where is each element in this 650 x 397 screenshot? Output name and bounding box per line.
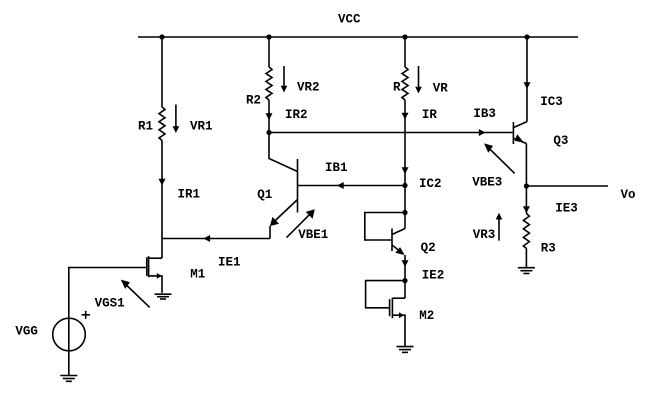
wire R to Q2 collector — [404, 100, 406, 229]
wire Q3 emitter node to R3 — [525, 186, 527, 214]
arrow IR current on wire — [402, 113, 409, 120]
node junction A at R2 bottom — [266, 130, 271, 135]
arrow VGS1 voltage annotation — [121, 280, 150, 308]
wire Q2 emitter to M2 — [404, 255, 406, 298]
svg-text:VGG: VGG — [15, 325, 38, 339]
svg-text:R1: R1 — [138, 120, 153, 134]
label polarity plus — [82, 311, 91, 319]
transistor M1 — [147, 256, 162, 293]
arrow IR1 current on wire — [159, 179, 166, 186]
arrow VBE3 voltage annotation — [484, 143, 515, 173]
svg-text:VR1: VR1 — [190, 120, 213, 134]
svg-text:IR1: IR1 — [178, 188, 201, 202]
arrow VR3 voltage annotation — [496, 213, 503, 241]
transistor M2 — [366, 281, 405, 347]
wire R2 to node A — [268, 100, 270, 133]
arrow IB1 current on wire — [337, 182, 344, 189]
svg-text:VCC: VCC — [338, 13, 361, 27]
node junction VCC-R2 — [266, 34, 271, 39]
arrow VR2 voltage annotation — [281, 66, 288, 93]
node junction IB1 tap — [402, 183, 407, 188]
svg-text:IB1: IB1 — [325, 161, 348, 175]
svg-text:M1: M1 — [190, 268, 205, 282]
ground below M2 — [397, 347, 414, 353]
transistor Q1 — [269, 133, 298, 239]
resistor R2 — [266, 67, 272, 100]
wire node A to Q3 base — [269, 132, 513, 134]
node junction Q2 collector-base tie — [402, 210, 407, 215]
arrow IC3 current on wire — [524, 82, 531, 89]
arrow VR1 voltage annotation — [173, 105, 180, 134]
ground below M1 — [155, 294, 172, 299]
resistor R1 — [159, 107, 165, 141]
node junction VCC-R — [402, 34, 407, 39]
arrow IC2 current on wire — [402, 167, 409, 174]
svg-text:Q1: Q1 — [257, 188, 272, 202]
wire M1 gate to VGG — [69, 268, 147, 376]
arrow IR2 current on wire — [266, 113, 273, 120]
arrow VR voltage annotation — [415, 66, 422, 94]
arrow IE1 current on wire — [203, 235, 210, 242]
voltage source VGG — [53, 318, 86, 351]
svg-text:IE2: IE2 — [422, 269, 445, 283]
arrow VBE1 voltage annotation — [287, 209, 315, 237]
svg-text:VR3: VR3 — [473, 228, 496, 242]
transistor Q3 — [513, 37, 527, 186]
wire IB1 from node to Q1 base — [298, 185, 406, 187]
wire VCC to R2 — [268, 37, 270, 67]
ground below VGG — [60, 376, 77, 382]
wire R3 to ground — [525, 249, 527, 268]
svg-text:IR2: IR2 — [285, 108, 308, 122]
node junction VCC-R1 — [159, 34, 164, 39]
node junction VCC-Q3 collector — [524, 34, 529, 39]
wire IE1 from M1 drain to Q1 emitter — [162, 238, 270, 240]
svg-text:VR2: VR2 — [297, 81, 320, 95]
wire Vo output — [526, 185, 608, 187]
wire VCC to R1 — [161, 37, 163, 107]
wire VCC to R — [404, 37, 406, 67]
node junction Vo tap — [524, 183, 529, 188]
svg-text:IC3: IC3 — [540, 95, 563, 109]
resistor R — [402, 67, 408, 100]
svg-text:Q2: Q2 — [421, 241, 436, 255]
svg-text:Q3: Q3 — [553, 134, 568, 148]
svg-text:M2: M2 — [419, 309, 434, 323]
svg-text:R2: R2 — [246, 94, 261, 108]
ground below R3 — [518, 268, 535, 274]
svg-text:IE1: IE1 — [218, 256, 241, 270]
resistor R3 — [523, 214, 529, 249]
transistor Q2 diode-connected — [365, 213, 405, 256]
svg-text:VGS1: VGS1 — [95, 297, 125, 311]
svg-text:IR: IR — [422, 108, 438, 122]
svg-text:VR: VR — [433, 82, 449, 96]
svg-text:R: R — [393, 81, 401, 95]
svg-text:IB3: IB3 — [473, 107, 496, 121]
svg-text:Vo: Vo — [621, 188, 636, 202]
arrow IB3 current on wire — [479, 129, 486, 136]
wire R1 to M1 drain — [161, 141, 163, 259]
node junction M2 gate tie — [402, 278, 407, 283]
svg-text:VBE3: VBE3 — [472, 176, 502, 190]
svg-text:R3: R3 — [541, 242, 556, 256]
arrow IE3 current on wire — [523, 206, 530, 213]
svg-text:IC2: IC2 — [419, 177, 442, 191]
arrow IE2 current on wire — [402, 260, 409, 267]
svg-text:VBE1: VBE1 — [298, 228, 328, 242]
wire VCC top rail — [138, 36, 578, 38]
svg-text:IE3: IE3 — [555, 202, 578, 216]
